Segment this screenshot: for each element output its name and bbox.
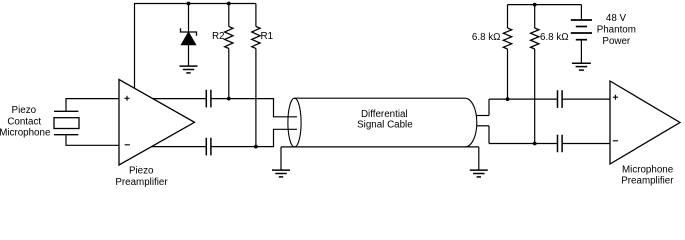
zener diode D1 lead to ground — [188, 45, 190, 66]
node junction: R1 bottom on inverting output line — [254, 145, 258, 149]
piezo element XT1 top plate — [54, 110, 78, 112]
wire C2 to cable step-up — [211, 129, 297, 146]
svg-text:Differential: Differential — [361, 109, 408, 120]
svg-text:Piezo: Piezo — [12, 105, 37, 116]
capacitor C3 plates — [558, 90, 563, 108]
resistor R3 6.8k zigzag — [503, 28, 511, 49]
battery BT1 plates — [571, 20, 592, 40]
ground (cable right shield) — [470, 170, 488, 177]
wire rail to amp U1 power (vertical into triangle top edge) — [134, 3, 136, 89]
node junction: D1 top on rail — [187, 2, 191, 6]
wire top-left rail — [135, 3, 256, 5]
wire right step-up to + line — [488, 99, 490, 115]
ground (below D1) — [180, 66, 198, 73]
wire cable right stub top — [476, 115, 489, 117]
svg-text:R1: R1 — [261, 31, 274, 42]
zener diode D1 anode triangle — [181, 32, 195, 44]
U1 minus input marker — [125, 144, 130, 146]
wire piezo bottom plate to U1 - input — [66, 135, 119, 146]
op-amp U1 Piezo Preamplifier triangle — [119, 80, 195, 166]
cable right end arc — [465, 98, 477, 147]
cable left end ellipse — [288, 98, 301, 147]
resistor R4 6.8k top lead — [534, 5, 536, 28]
svg-text:R2: R2 — [212, 31, 225, 42]
battery BT1 48V top stem — [580, 5, 582, 20]
cable shield bottom line — [281, 146, 479, 148]
resistor R1 bottom lead — [255, 49, 257, 147]
svg-text:Microphone: Microphone — [0, 128, 51, 139]
cable shield top line — [295, 97, 466, 99]
wire U1 noninverting output line (left of C1) — [153, 98, 207, 100]
svg-text:Preamplifier: Preamplifier — [115, 177, 168, 188]
svg-text:6.8 kΩ: 6.8 kΩ — [472, 32, 501, 43]
wire U1 inverting output line (left of C2) — [152, 146, 207, 148]
svg-text:Contact: Contact — [7, 116, 41, 127]
resistor R2 top lead — [228, 4, 230, 27]
svg-text:Piezo: Piezo — [129, 166, 154, 177]
wire C4 to U2 - input — [562, 143, 610, 145]
capacitor C4 plates — [558, 135, 563, 153]
capacitor C1 plates — [206, 90, 211, 108]
svg-text:Preamplifier: Preamplifier — [621, 176, 674, 187]
resistor R3 bottom lead — [507, 49, 509, 99]
ground (battery) — [572, 63, 591, 70]
wire C1 to cable step-down — [211, 99, 297, 117]
piezo element XT1 crystal body — [54, 118, 79, 129]
U1 plus input marker — [125, 96, 130, 101]
node junction: R4 bottom on - line — [533, 142, 537, 146]
resistor R4 bottom lead — [534, 49, 536, 144]
wire right step-down to - line — [488, 126, 490, 144]
resistor R2 zigzag — [225, 27, 233, 49]
capacitor C2 plates — [206, 138, 211, 156]
resistor R4 6.8k zigzag — [531, 28, 539, 49]
svg-text:48 V: 48 V — [606, 13, 627, 24]
wire cable right stub bottom — [477, 125, 489, 127]
wire + line (left of C3) — [489, 98, 558, 100]
wire cable shield to ground left — [280, 147, 282, 170]
zener diode D1 cathode bar — [181, 28, 197, 36]
op-amp U2 Microphone Preamplifier triangle — [610, 81, 680, 164]
svg-text:Microphone: Microphone — [622, 164, 674, 175]
resistor R1 zigzag — [252, 27, 260, 49]
resistor R1 top lead (rail corner) — [255, 4, 257, 27]
node junction: R4 top on rail — [533, 3, 537, 7]
wire phantom supply rail — [508, 4, 582, 6]
resistor R3 6.8k top lead — [507, 5, 509, 28]
svg-text:Phantom: Phantom — [597, 24, 636, 35]
wire piezo top plate to U1 + input — [66, 99, 119, 112]
piezo element XT1 bottom plate — [54, 134, 78, 136]
U2 plus input marker — [613, 95, 618, 100]
zener diode D1 lead from rail — [188, 4, 190, 33]
svg-text:Power: Power — [602, 36, 631, 47]
wire C3 to U2 + input — [562, 98, 610, 100]
battery BT1 bottom stem — [580, 40, 582, 63]
svg-text:6.8 kΩ: 6.8 kΩ — [540, 32, 569, 43]
node junction: R3 bottom on + line — [506, 97, 510, 101]
node junction: R2 bottom on noninverting output line — [227, 97, 231, 101]
node junction: R2 top on rail — [227, 2, 231, 6]
ground (cable left shield) — [272, 170, 290, 177]
wire cable shield to ground right — [478, 147, 480, 170]
wire - line (left of C4) — [489, 143, 558, 145]
svg-text:Signal Cable: Signal Cable — [357, 119, 413, 130]
resistor R2 bottom lead — [228, 49, 230, 99]
U2 minus input marker — [613, 140, 618, 142]
